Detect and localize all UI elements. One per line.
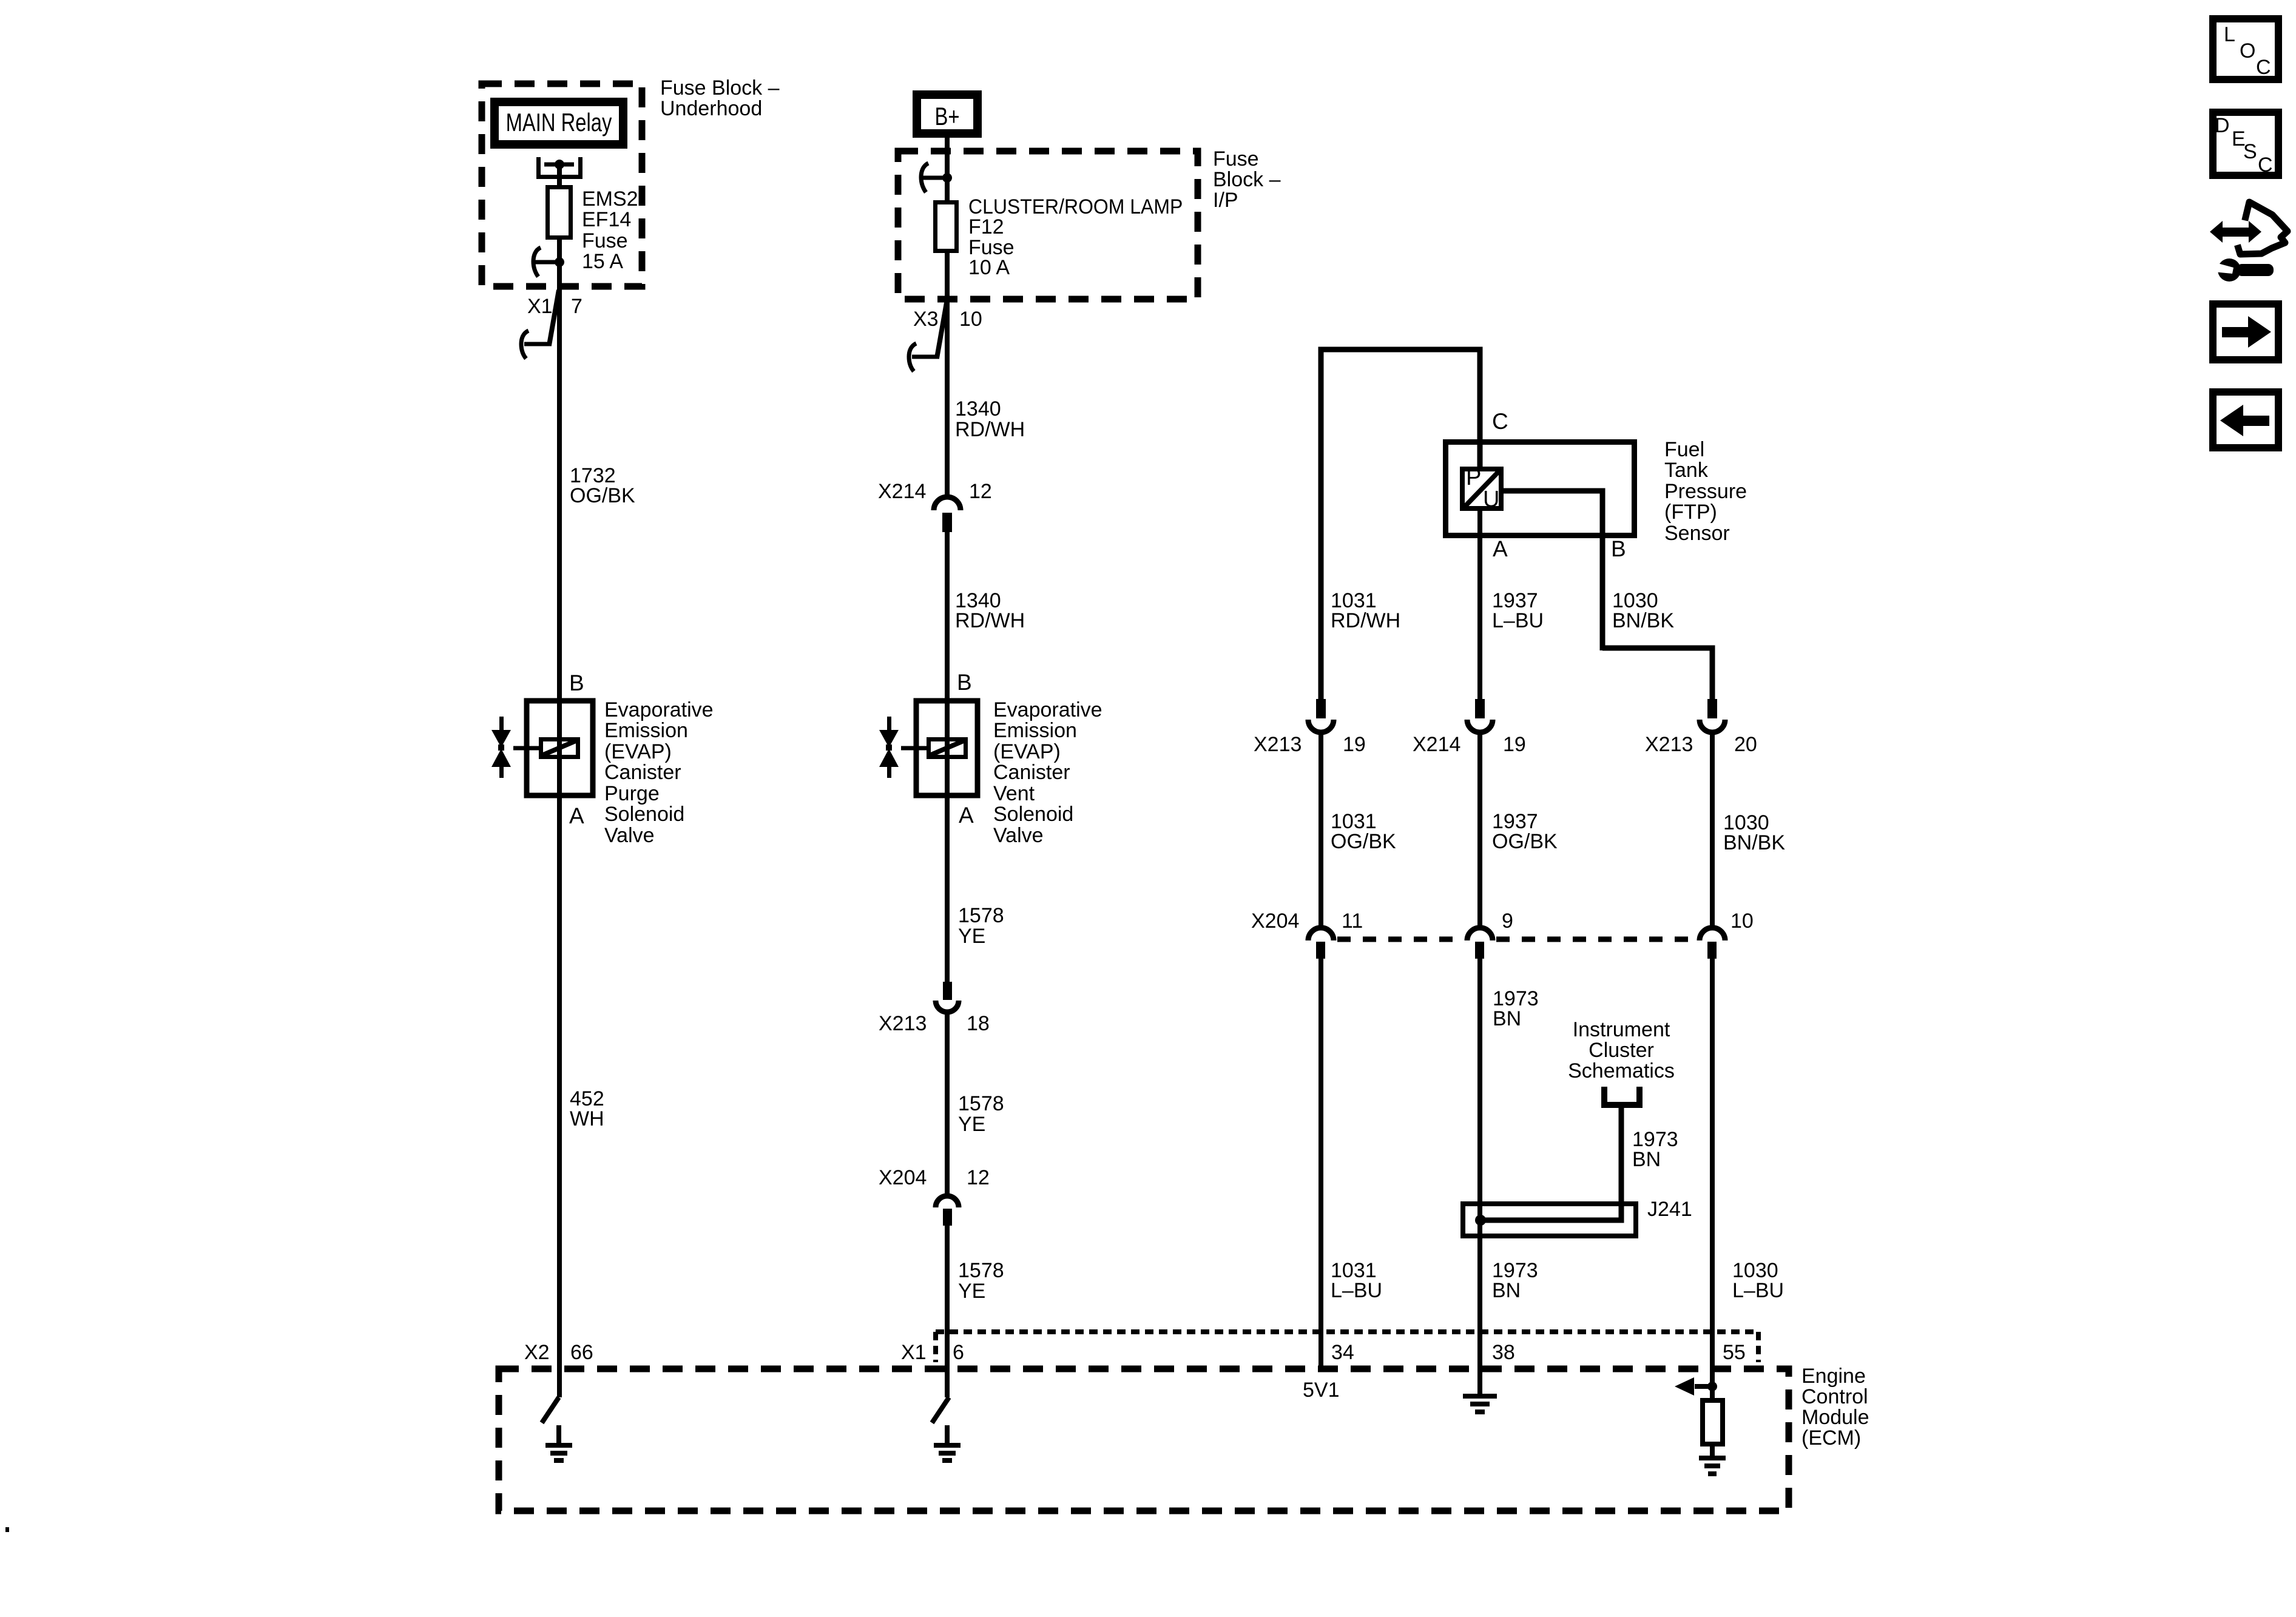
svg-text:Evaporative: Evaporative bbox=[993, 698, 1102, 721]
hook: circuit continues at fuse EF14 output bbox=[533, 248, 557, 277]
in-line connector X213 pin 19 (1031) bbox=[1316, 699, 1326, 718]
wire label 1578 YE (upper) bbox=[958, 904, 1004, 948]
icon: wiring repair (double arrow, connector outline, wrench) bbox=[2210, 221, 2261, 243]
svg-text:Schematics: Schematics bbox=[1568, 1059, 1675, 1082]
vent solenoid name label bbox=[993, 698, 1102, 847]
fuse block I/P dashed box bbox=[898, 151, 1198, 299]
in-line connector X204 pin 10 bbox=[1700, 928, 1725, 940]
svg-text:1578: 1578 bbox=[958, 1092, 1004, 1115]
connector label X214 | 12 bbox=[878, 480, 992, 503]
wire: top rail from 1031 branch to FTP C bbox=[1321, 349, 1480, 699]
EVAP canister purge solenoid valve box bbox=[527, 701, 593, 795]
connector label X3 | 10 bbox=[913, 308, 982, 331]
svg-text:X1: X1 bbox=[901, 1341, 927, 1364]
wire 1340 RD/WH to vent solenoid bbox=[945, 532, 950, 698]
ECM pin label 55 bbox=[1723, 1341, 1746, 1364]
fuse holder clip for fuse EF14 bbox=[539, 157, 581, 177]
wire from U output to FTP pin B bbox=[1501, 491, 1602, 650]
svg-text:15 A: 15 A bbox=[582, 250, 623, 273]
ECM dashed box bbox=[499, 1369, 1789, 1511]
connector label X204 | 12 bbox=[879, 1166, 990, 1189]
svg-text:F12: F12 bbox=[968, 215, 1004, 238]
resistor R (ECM internal pull-up at pin 55) bbox=[1703, 1386, 1723, 1458]
svg-text:Underhood: Underhood bbox=[660, 97, 762, 120]
svg-text:U: U bbox=[1483, 487, 1499, 512]
pin label B of purge solenoid bbox=[569, 670, 584, 695]
svg-text:Block –: Block – bbox=[1213, 168, 1281, 191]
svg-text:12: 12 bbox=[969, 480, 992, 503]
pin label A of purge solenoid bbox=[569, 803, 584, 828]
svg-text:Vent: Vent bbox=[993, 782, 1035, 805]
svg-text:(EVAP): (EVAP) bbox=[604, 740, 672, 763]
svg-text:9: 9 bbox=[1502, 910, 1513, 933]
svg-text:Emission: Emission bbox=[993, 719, 1077, 742]
svg-text:55: 55 bbox=[1723, 1341, 1746, 1364]
svg-text:19: 19 bbox=[1343, 733, 1366, 756]
svg-text:(ECM): (ECM) bbox=[1801, 1426, 1861, 1450]
svg-text:WH: WH bbox=[570, 1107, 604, 1130]
splice J241 box bbox=[1463, 1204, 1636, 1236]
svg-text:Purge: Purge bbox=[604, 782, 660, 805]
MAIN Relay label bbox=[506, 108, 612, 137]
svg-text:EF14: EF14 bbox=[582, 208, 631, 231]
svg-text:BN: BN bbox=[1492, 1279, 1521, 1302]
svg-text:BN/BK: BN/BK bbox=[1612, 609, 1674, 632]
pin label B of vent solenoid bbox=[957, 670, 972, 695]
svg-text:X3: X3 bbox=[913, 308, 939, 331]
svg-text:1340: 1340 bbox=[955, 397, 1001, 420]
wire label 1973 BN (branch) bbox=[1632, 1128, 1678, 1171]
svg-text:A: A bbox=[569, 803, 584, 828]
wire through vent solenoid bbox=[945, 698, 950, 798]
icon: DESC button bbox=[2213, 112, 2278, 175]
wire from fuse F12 to connector X3 pin 10 bbox=[945, 251, 950, 358]
in-line connector X213 pin 20 (1030) bbox=[1707, 699, 1717, 718]
svg-text:Control: Control bbox=[1801, 1385, 1868, 1408]
wire label 1578 YE (middle) bbox=[958, 1092, 1004, 1136]
connector pin label 9 bbox=[1502, 910, 1513, 933]
svg-text:YE: YE bbox=[958, 1113, 985, 1136]
svg-text:B+: B+ bbox=[935, 102, 960, 130]
svg-text:Fuel: Fuel bbox=[1664, 438, 1704, 461]
purge solenoid name label bbox=[604, 698, 714, 847]
svg-text:Sensor: Sensor bbox=[1664, 522, 1730, 545]
ECM name label bbox=[1801, 1365, 1869, 1450]
wire label 1031 L-BU bbox=[1331, 1259, 1382, 1302]
node: junction dot below fuse EF14 bbox=[555, 257, 564, 267]
wire 1973 BN from instrument cluster to splice J241 bbox=[1483, 1108, 1621, 1220]
P/U letters bbox=[1466, 465, 1499, 512]
connector X2 pin 66 slash inside ECM bbox=[542, 1397, 559, 1423]
svg-text:CLUSTER/ROOM LAMP: CLUSTER/ROOM LAMP bbox=[968, 195, 1183, 218]
svg-text:Solenoid: Solenoid bbox=[993, 803, 1073, 826]
svg-text:S: S bbox=[2243, 140, 2257, 163]
icon: back arrow button bbox=[2213, 392, 2278, 448]
svg-text:A: A bbox=[959, 803, 974, 828]
svg-text:7: 7 bbox=[571, 295, 582, 318]
svg-text:Canister: Canister bbox=[993, 761, 1070, 784]
svg-text:L–BU: L–BU bbox=[1492, 609, 1544, 632]
svg-text:C: C bbox=[2256, 56, 2271, 79]
fuse F12 value label bbox=[968, 195, 1183, 279]
in-line connector X214 pin 19 (1937) bbox=[1475, 699, 1485, 718]
svg-text:Fuse: Fuse bbox=[582, 229, 628, 252]
svg-text:RD/WH: RD/WH bbox=[955, 418, 1025, 441]
wire label 452 WH bbox=[570, 1087, 604, 1130]
hook: other circuits at connector X1 bbox=[521, 331, 552, 359]
svg-text:(EVAP): (EVAP) bbox=[993, 740, 1061, 763]
battery feed B+ box bbox=[917, 95, 977, 133]
svg-text:X213: X213 bbox=[879, 1012, 927, 1035]
fuel tank pressure sensor U (FTP) box bbox=[1446, 442, 1635, 536]
svg-text:6: 6 bbox=[953, 1341, 964, 1364]
wire 1973 BN from X204-9 to ECM pin 38 bbox=[1477, 959, 1482, 1369]
connector label X1 | 7 bbox=[527, 295, 582, 318]
wire from junction to connector X1 pin 7 bbox=[557, 262, 562, 346]
connector label X213 | 18 bbox=[879, 1012, 990, 1035]
wire label 1973 BN (lower) bbox=[1492, 1259, 1538, 1302]
svg-text:L: L bbox=[2224, 23, 2235, 46]
ground G (ECM internal, driver for purge) bbox=[556, 1425, 561, 1445]
ground G (ECM internal below resistor) bbox=[1699, 1456, 1726, 1476]
svg-text:B: B bbox=[957, 670, 972, 695]
in-line connector X204 pin 11 bbox=[1308, 928, 1334, 940]
wire label 1031 RD/WH bbox=[1331, 589, 1400, 632]
instrument cluster schematics reference label bbox=[1568, 1018, 1675, 1082]
wire label 1973 BN (upper) bbox=[1493, 987, 1539, 1030]
wire label 1937 L-BU (upper) bbox=[1492, 589, 1544, 632]
wire 1030 jog from B to X213 pin 20 bbox=[1602, 648, 1712, 699]
svg-text:L–BU: L–BU bbox=[1732, 1279, 1784, 1302]
connector label X213 | 20 bbox=[1645, 733, 1757, 756]
icon: next arrow button bbox=[2213, 304, 2278, 360]
svg-text:66: 66 bbox=[570, 1341, 593, 1364]
svg-text:20: 20 bbox=[1734, 733, 1757, 756]
svg-text:OG/BK: OG/BK bbox=[1331, 830, 1396, 853]
in-line connector X213 pin 18 bbox=[943, 982, 952, 1000]
wire label 1578 YE (lower) bbox=[958, 1259, 1004, 1303]
node: splice junction dot in J241 bbox=[1475, 1215, 1486, 1226]
svg-text:X1: X1 bbox=[527, 295, 553, 318]
arrow: signal sense into ECM at pin 55 bbox=[1695, 1384, 1712, 1389]
wire label 1340 RD/WH (lower) bbox=[955, 589, 1025, 632]
svg-text:Solenoid: Solenoid bbox=[604, 803, 684, 826]
svg-text:10: 10 bbox=[959, 308, 982, 331]
net label 5V1 (ECM internal reference) bbox=[1303, 1379, 1340, 1402]
node: junction dot at pin 55 sense line bbox=[1707, 1382, 1717, 1391]
ground G (ECM internal, driver for vent) bbox=[945, 1425, 950, 1445]
svg-text:X204: X204 bbox=[879, 1166, 927, 1189]
FTP transducer P/U square bbox=[1462, 469, 1501, 508]
svg-text:I/P: I/P bbox=[1213, 189, 1238, 212]
svg-text:Fuse Block –: Fuse Block – bbox=[660, 76, 780, 100]
svg-text:EMS2: EMS2 bbox=[582, 187, 638, 211]
svg-text:X214: X214 bbox=[878, 480, 926, 503]
wire 1031 L-BU from X204-11 to ECM pin 34 bbox=[1319, 959, 1323, 1369]
wire 1578 YE from vent solenoid bbox=[945, 798, 950, 982]
wire from bus dot to fuse EF14 bbox=[557, 164, 562, 187]
wire 452 WH from purge solenoid to ECM bbox=[557, 798, 562, 1397]
svg-text:X2: X2 bbox=[524, 1341, 550, 1364]
fuse block underhood label bbox=[660, 76, 780, 120]
svg-text:10 A: 10 A bbox=[968, 256, 1010, 279]
wire 1030 BN/BK down to X204 pin 10 bbox=[1710, 734, 1715, 926]
wire label 1030 BN/BK (lower) bbox=[1723, 811, 1785, 854]
svg-text:B: B bbox=[1611, 536, 1626, 561]
FTP sensor name label bbox=[1664, 438, 1747, 545]
svg-text:Instrument: Instrument bbox=[1573, 1018, 1670, 1041]
purge solenoid coil bbox=[541, 740, 578, 757]
node: junction dot at relay/fuse bus bbox=[555, 160, 564, 169]
connector X204 face dashed line bbox=[1337, 937, 1697, 942]
svg-text:OG/BK: OG/BK bbox=[570, 484, 635, 507]
svg-text:11: 11 bbox=[1342, 910, 1363, 933]
svg-text:B: B bbox=[569, 670, 584, 695]
svg-text:Emission: Emission bbox=[604, 719, 688, 742]
in-line connector X204 pin 9 bbox=[1467, 928, 1493, 940]
svg-text:RD/WH: RD/WH bbox=[955, 609, 1025, 632]
svg-text:19: 19 bbox=[1503, 733, 1526, 756]
svg-text:X213: X213 bbox=[1645, 733, 1693, 756]
connector X1 pin 7 slash bbox=[549, 290, 559, 345]
vent solenoid coil bbox=[929, 740, 966, 757]
fuse block underhood dashed box bbox=[482, 84, 642, 286]
svg-text:Fuse: Fuse bbox=[1213, 147, 1259, 170]
svg-text:OG/BK: OG/BK bbox=[1492, 830, 1558, 853]
ECM pin label 38 bbox=[1492, 1341, 1515, 1364]
svg-text:Valve: Valve bbox=[993, 824, 1044, 847]
svg-text:1578: 1578 bbox=[958, 904, 1004, 927]
connector pin label 10 bbox=[1730, 910, 1754, 933]
wire 1031 OG/BK down to X204 pin 11 bbox=[1319, 734, 1323, 926]
splice label J241 bbox=[1647, 1198, 1692, 1221]
svg-text:YE: YE bbox=[958, 925, 985, 948]
svg-text:C: C bbox=[1492, 409, 1508, 434]
svg-text:12: 12 bbox=[967, 1166, 990, 1189]
hook: other circuits at B+ bus bbox=[921, 163, 945, 192]
fuse EF14 (EMS2 15 A) bbox=[548, 187, 571, 238]
hook: other circuits at connector X3 bbox=[909, 343, 939, 371]
svg-text:J241: J241 bbox=[1647, 1198, 1692, 1221]
svg-text:10: 10 bbox=[1730, 910, 1754, 933]
svg-text:Tank: Tank bbox=[1664, 459, 1709, 482]
svg-text:Evaporative: Evaporative bbox=[604, 698, 714, 721]
svg-text:X214: X214 bbox=[1413, 733, 1460, 756]
svg-text:Valve: Valve bbox=[604, 824, 655, 847]
instrument cluster off-page bracket bbox=[1604, 1087, 1639, 1105]
svg-text:RD/WH: RD/WH bbox=[1331, 609, 1400, 632]
svg-text:X204: X204 bbox=[1251, 910, 1299, 933]
connector label X1 | 6 bbox=[901, 1341, 964, 1364]
svg-text:P: P bbox=[1466, 465, 1481, 490]
wire 1578 YE from X204 to ECM X1 pin 6 bbox=[945, 1226, 950, 1397]
svg-text:5V1: 5V1 bbox=[1303, 1379, 1340, 1402]
wire 1030 L-BU from X204-10 to ECM pin 55 bbox=[1710, 959, 1715, 1386]
relay K (MAIN Relay) box bbox=[495, 102, 623, 144]
svg-text:34: 34 bbox=[1331, 1341, 1354, 1364]
connector label X214 | 19 bbox=[1413, 733, 1526, 756]
svg-text:O: O bbox=[2240, 39, 2255, 62]
svg-text:YE: YE bbox=[958, 1280, 985, 1303]
fuse EF14 value label bbox=[582, 187, 638, 273]
svg-text:L–BU: L–BU bbox=[1331, 1279, 1382, 1302]
icon: LOC button bbox=[2213, 19, 2278, 79]
svg-text:X213: X213 bbox=[1254, 733, 1302, 756]
svg-text:(FTP): (FTP) bbox=[1664, 501, 1717, 524]
svg-text:18: 18 bbox=[967, 1012, 990, 1035]
wire label 1030 L-BU bbox=[1732, 1259, 1784, 1302]
svg-text:Engine: Engine bbox=[1801, 1365, 1866, 1388]
ECM connector face fine-dashed line bbox=[936, 1332, 1758, 1362]
pin label C of FTP sensor bbox=[1492, 409, 1508, 434]
in-line connector X214 pin 12 bbox=[934, 358, 961, 510]
line from purge valve to coil bbox=[513, 746, 540, 751]
in-line connector X204 pin 12 bbox=[936, 1196, 959, 1207]
pin label B of FTP sensor bbox=[1611, 536, 1626, 561]
connector X3 pin 10 slash bbox=[937, 303, 947, 358]
svg-text:Module: Module bbox=[1801, 1406, 1869, 1429]
connector label X2 | 66 bbox=[524, 1341, 593, 1364]
wire label 1031 OG/BK bbox=[1331, 810, 1396, 853]
node: junction dot on B+ bus bbox=[942, 173, 952, 183]
B+ label bbox=[935, 102, 960, 130]
svg-text:C: C bbox=[2258, 154, 2273, 177]
wire label 1732 OG/BK bbox=[570, 464, 635, 507]
line from vent valve to coil bbox=[901, 746, 928, 751]
ECM pin label 34 bbox=[1331, 1341, 1354, 1364]
svg-text:1578: 1578 bbox=[958, 1259, 1004, 1282]
svg-text:Canister: Canister bbox=[604, 761, 681, 784]
svg-text:BN/BK: BN/BK bbox=[1723, 831, 1785, 854]
svg-text:38: 38 bbox=[1492, 1341, 1515, 1364]
svg-text:Cluster: Cluster bbox=[1589, 1039, 1654, 1062]
svg-text:BN: BN bbox=[1493, 1007, 1521, 1030]
wire label 1937 OG/BK bbox=[1492, 810, 1558, 853]
svg-text:D: D bbox=[2215, 114, 2230, 137]
EVAP canister vent solenoid valve box bbox=[916, 701, 977, 795]
wire from B+ into fuse block bbox=[945, 138, 950, 202]
pin label A of FTP sensor bbox=[1493, 536, 1508, 561]
svg-text:A: A bbox=[1493, 536, 1508, 561]
fuse block I/P label bbox=[1213, 147, 1281, 212]
wire 1732 OG/BK from X1-7 to EVAP purge solenoid bbox=[557, 346, 562, 698]
wire through purge solenoid bbox=[557, 698, 562, 798]
purge valve symbol (pneumatic) bbox=[491, 717, 511, 778]
connector label X204 | 11 bbox=[1251, 910, 1363, 933]
wire from P/U to FTP pin A bbox=[1477, 508, 1482, 699]
vent valve symbol (pneumatic) bbox=[879, 717, 899, 778]
wire 1937 OG/BK down to X204 pin 9 bbox=[1477, 734, 1482, 926]
svg-text:BN: BN bbox=[1632, 1148, 1661, 1171]
wire 1578 YE between X213 and X204 bbox=[945, 1014, 950, 1193]
stray page dot bbox=[5, 1527, 9, 1532]
pin label A of vent solenoid bbox=[959, 803, 974, 828]
fuse F12 (CLUSTER/ROOM LAMP 10 A) bbox=[936, 203, 957, 251]
connector label X213 | 19 bbox=[1254, 733, 1366, 756]
ground G (ECM internal, sensor low at pin 38) bbox=[1477, 1369, 1482, 1396]
svg-text:Pressure: Pressure bbox=[1664, 480, 1747, 503]
svg-text:MAIN Relay: MAIN Relay bbox=[506, 108, 612, 137]
connector X1 pin 6 slash inside ECM bbox=[932, 1397, 949, 1423]
wire label 1340 RD/WH (upper) bbox=[955, 397, 1025, 441]
wire label 1030 BN/BK (upper) bbox=[1612, 589, 1674, 632]
wire from fuse EF14 to junction bbox=[557, 237, 562, 262]
